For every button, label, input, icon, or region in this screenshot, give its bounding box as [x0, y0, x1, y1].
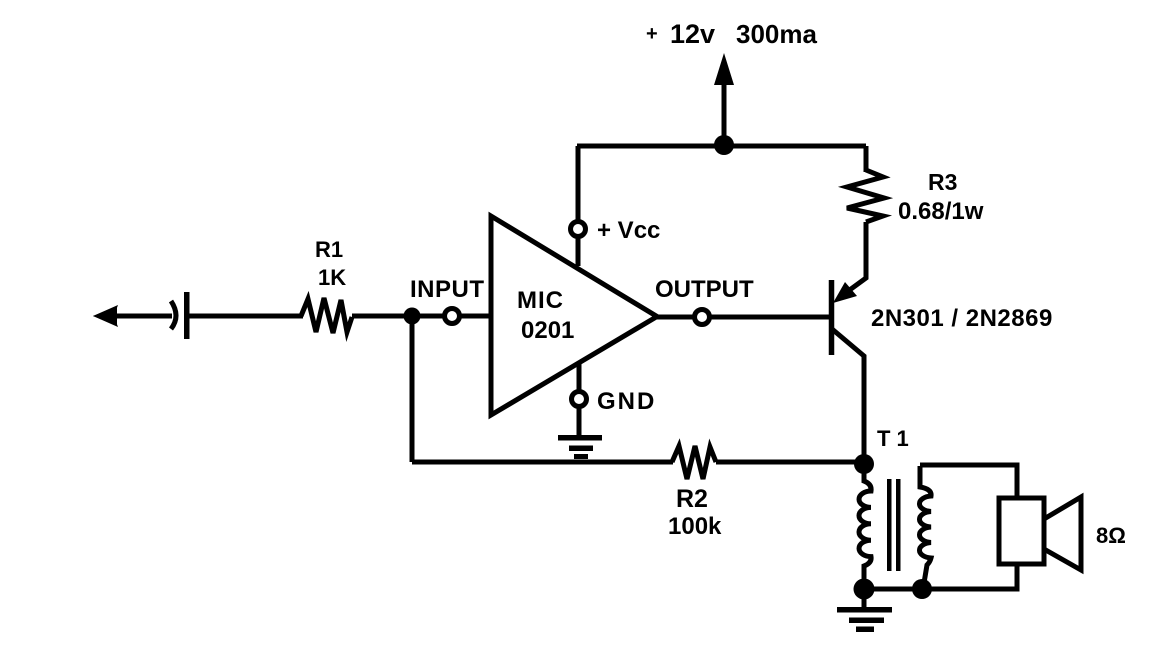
wire node down to feedback — [410, 316, 415, 462]
svg-text:OUTPUT: OUTPUT — [655, 276, 754, 303]
capacitor C1 curved plate — [171, 301, 176, 329]
power +12V arrow — [714, 53, 734, 145]
wire node to input terminal — [412, 314, 444, 319]
wire R1 to node — [352, 314, 410, 319]
node top rail junction — [714, 135, 734, 155]
node secondary bottom — [912, 579, 932, 599]
svg-text:MIC: MIC — [517, 287, 564, 314]
transformer core — [887, 479, 901, 571]
wire Vcc terminal to triangle — [576, 237, 581, 266]
svg-text:R2: R2 — [676, 485, 708, 513]
svg-text:+: + — [646, 23, 658, 45]
resistor R3 zigzag — [847, 170, 884, 222]
transistor Q1 base bar — [829, 280, 835, 355]
wire terminal to op-amp — [460, 314, 491, 319]
wire GND terminal down — [577, 407, 582, 436]
op-amp U1 MIC0201 triangle — [491, 216, 657, 415]
svg-text:INPUT: INPUT — [410, 276, 485, 303]
speaker horn — [1044, 497, 1081, 570]
speaker rectangle — [999, 498, 1044, 564]
wire primary bottom to ground — [862, 589, 867, 608]
node transformer top — [854, 454, 874, 474]
wire triangle to GND terminal — [577, 363, 582, 392]
svg-text:0201: 0201 — [521, 317, 574, 344]
svg-text:8Ω: 8Ω — [1096, 523, 1126, 548]
wire feedback bottom — [412, 460, 673, 465]
node primary bottom — [854, 579, 875, 600]
ground under op-amp — [558, 435, 602, 459]
svg-text:12v: 12v — [670, 19, 715, 49]
svg-text:GND: GND — [597, 388, 656, 415]
wire secondary top to speaker — [920, 465, 1017, 501]
transformer T1 primary winding — [859, 464, 871, 589]
wire R2 to transformer node — [716, 460, 864, 465]
wire R3 to emitter — [840, 222, 866, 297]
wire input lead — [106, 314, 172, 319]
terminal input — [445, 309, 460, 324]
terminal output — [695, 310, 710, 325]
svg-text:2N301 / 2N2869: 2N301 / 2N2869 — [871, 305, 1053, 332]
terminal Vcc — [571, 222, 586, 237]
resistor R1 zigzag — [301, 298, 352, 333]
resistor R2 zigzag — [672, 446, 716, 479]
emitter arrowhead — [833, 282, 857, 303]
svg-text:T 1: T 1 — [877, 426, 909, 451]
svg-text:+ Vcc: + Vcc — [597, 217, 660, 244]
wire bottom bus — [864, 562, 1017, 589]
input arrow — [93, 305, 118, 327]
wire Vcc terminal up to rail — [576, 146, 581, 222]
wire op-amp apex to output terminal — [655, 315, 695, 320]
wire cap to R1 — [189, 314, 303, 319]
svg-text:R3: R3 — [928, 169, 957, 195]
wire rail corner down to R3 — [864, 146, 869, 172]
terminal GND — [572, 392, 587, 407]
svg-text:0.68/1w: 0.68/1w — [898, 198, 984, 225]
svg-text:R1: R1 — [315, 237, 343, 262]
wire top rail — [577, 144, 866, 149]
capacitor C1 straight plate — [184, 292, 190, 339]
svg-text:300ma: 300ma — [736, 19, 817, 49]
transistor Q1 collector lead — [832, 329, 864, 464]
transformer T1 secondary winding — [919, 466, 931, 589]
svg-text:100k: 100k — [668, 513, 722, 540]
svg-text:1K: 1K — [318, 265, 346, 290]
wire base from output terminal — [710, 315, 829, 320]
node input junction — [404, 308, 421, 325]
ground bottom — [837, 607, 892, 632]
